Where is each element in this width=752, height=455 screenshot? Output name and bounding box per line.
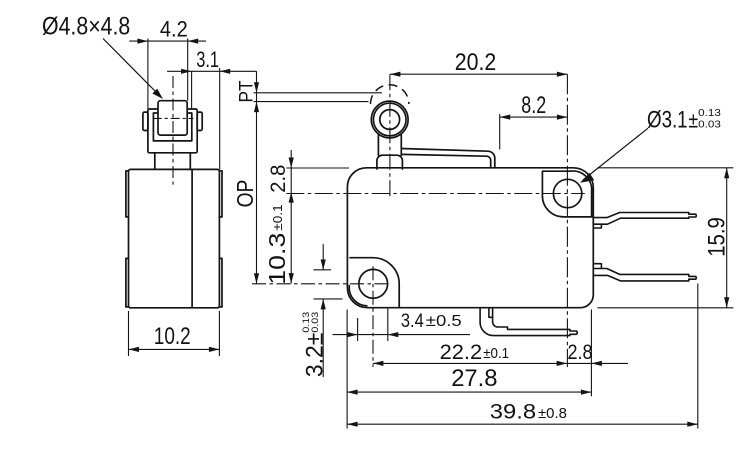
svg-text:Ø4.8×4.8: Ø4.8×4.8 xyxy=(42,13,130,41)
svg-text:8.2: 8.2 xyxy=(521,92,546,119)
svg-text:±: ± xyxy=(688,108,698,133)
body side tab bottom-right xyxy=(219,258,222,307)
dim 4.2 xyxy=(129,39,206,110)
body seam line xyxy=(191,169,193,307)
svg-text:15.9: 15.9 xyxy=(704,217,731,257)
svg-text:10.3: 10.3 xyxy=(264,233,290,285)
svg-text:4.2: 4.2 xyxy=(160,16,188,41)
centerline hole BL horizontal xyxy=(252,283,391,285)
svg-text:2.8: 2.8 xyxy=(568,340,593,364)
mounting hole bottom-left xyxy=(359,269,388,298)
svg-text:±0.8: ±0.8 xyxy=(538,405,567,422)
svg-text:3.1: 3.1 xyxy=(196,47,219,72)
centerline hole TR vertical xyxy=(566,74,568,367)
dim 22.2 and 2.8 bottom xyxy=(373,310,628,397)
svg-text:3.4: 3.4 xyxy=(401,311,424,332)
lever bracket (front) xyxy=(378,130,401,155)
svg-text:±0.1: ±0.1 xyxy=(483,345,509,362)
body side tab top-right xyxy=(219,171,222,217)
svg-text:3.2±: 3.2± xyxy=(302,333,329,378)
dim 10.2 xyxy=(129,311,220,356)
centerline vertical (side view) xyxy=(172,76,174,185)
centerline roller vertical xyxy=(389,74,391,197)
common terminal (bottom) xyxy=(480,308,577,336)
stem (side view) xyxy=(155,153,191,170)
boss bottom-left xyxy=(350,258,399,308)
roller outer circle xyxy=(371,101,408,138)
dim 27.8 xyxy=(347,310,591,429)
leader arrowhead xyxy=(152,89,163,99)
OP arrow xyxy=(254,273,259,284)
main body outline xyxy=(347,168,593,308)
roller axle tab left xyxy=(143,112,148,130)
roller (side view) xyxy=(158,101,187,135)
plunger xyxy=(377,155,403,169)
svg-text:Ø3.1: Ø3.1 xyxy=(647,107,688,134)
leader for D3.1 xyxy=(583,128,648,180)
terminal NO upper stub xyxy=(593,264,601,268)
leader arrowhead D3.1 xyxy=(580,173,594,183)
svg-text:±0.5: ±0.5 xyxy=(426,313,462,330)
svg-text:22.2: 22.2 xyxy=(440,340,483,364)
centerline hole BL vertical xyxy=(372,266,374,367)
svg-text:2.8: 2.8 xyxy=(266,165,290,193)
svg-text:0.03: 0.03 xyxy=(698,118,721,130)
centerline hole TR horizontal xyxy=(286,193,585,195)
label D4.8x4.8 xyxy=(42,13,130,41)
lever arm xyxy=(401,149,495,168)
roller bracket outer xyxy=(148,109,197,153)
dim 2.8 left / 10.3 xyxy=(286,150,349,284)
PT-OP dimension vertical line xyxy=(256,71,258,283)
PT arrows xyxy=(254,82,259,93)
body side tab bottom-left xyxy=(126,258,129,307)
svg-text:±0.1: ±0.1 xyxy=(270,204,285,230)
dim 8.2 xyxy=(500,114,568,150)
leader for D4.8x4.8 xyxy=(103,39,159,95)
common terminal stub xyxy=(489,308,493,318)
svg-text:0.13: 0.13 xyxy=(698,107,721,119)
mounting hole top-right xyxy=(553,179,581,207)
svg-text:39.8: 39.8 xyxy=(490,400,536,424)
terminal NO (middle right) xyxy=(593,269,696,281)
PT tangent lines xyxy=(254,93,383,102)
svg-text:OP: OP xyxy=(232,180,258,208)
svg-text:0.03: 0.03 xyxy=(310,312,321,333)
svg-text:20.2: 20.2 xyxy=(455,49,497,76)
body side tab top-left xyxy=(126,171,129,217)
roller bracket inner slot xyxy=(153,113,191,141)
body (side view) xyxy=(129,169,220,307)
dim 3.2 xyxy=(314,244,343,377)
roller eye circle xyxy=(373,103,406,136)
roller hole xyxy=(380,110,400,130)
terminal NC lower stub xyxy=(593,224,601,228)
svg-text:PT: PT xyxy=(237,80,258,102)
svg-text:10.2: 10.2 xyxy=(154,323,191,350)
roller free-position dashed arc xyxy=(371,85,409,104)
dim 3.4 xyxy=(333,308,471,341)
svg-text:27.8: 27.8 xyxy=(451,365,497,392)
dim 20.2 xyxy=(390,73,568,75)
dim 3.1 xyxy=(167,68,256,169)
terminal NC (top right) xyxy=(593,213,696,225)
dim 15.9 xyxy=(598,168,734,308)
boss top-right (mounting lug) xyxy=(542,171,593,217)
roller axle tab right xyxy=(197,112,202,130)
bottom-left chamfer inner arc xyxy=(349,286,367,306)
centerline horizontal (side view) xyxy=(153,117,194,119)
dim 39.8 xyxy=(347,284,698,429)
